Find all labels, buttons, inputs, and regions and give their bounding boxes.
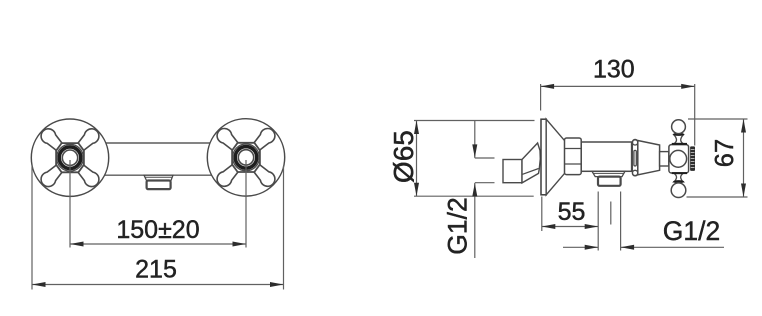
dimension 150±20 <box>70 242 246 247</box>
right escutcheon <box>207 119 284 196</box>
wall nipple <box>503 160 522 183</box>
dimension 55 <box>542 192 611 251</box>
right handle lobe SW <box>214 161 242 189</box>
flange cone <box>546 119 567 195</box>
extension line 215 right <box>283 166 285 290</box>
dimension 215 <box>32 282 284 287</box>
right handle lobe NW <box>214 125 242 153</box>
outlet collar side <box>592 171 625 176</box>
handle hub side <box>669 145 689 173</box>
top collar ring <box>673 133 684 136</box>
svg-text:150±20: 150±20 <box>116 216 199 244</box>
right handle assembly <box>207 119 284 196</box>
extension line 215 left <box>31 166 33 290</box>
outlet collar front <box>144 175 173 180</box>
eccentric union inner edge <box>523 169 539 175</box>
left hub outer circle <box>57 144 84 171</box>
top neck <box>674 135 683 144</box>
right hub outer circle <box>233 144 260 171</box>
handle neck side <box>660 152 669 166</box>
top ball <box>672 120 686 134</box>
valve body side <box>581 142 631 171</box>
left hub dark ring <box>59 147 81 169</box>
svg-text:215: 215 <box>135 256 177 284</box>
hub bottom edge <box>672 172 687 174</box>
dimension G1/2 right <box>563 192 724 251</box>
svg-text:Ø65: Ø65 <box>388 130 419 183</box>
left handle lobe NW <box>38 126 66 154</box>
knurled medallion <box>690 146 695 171</box>
left handle lobe SW <box>38 161 66 189</box>
dimension 130 <box>541 84 695 146</box>
dimension 67 <box>687 119 748 197</box>
left hub bore <box>62 150 77 165</box>
svg-text:G1/2: G1/2 <box>443 197 473 254</box>
left handle lobe NE <box>74 126 102 154</box>
right hub dark ring <box>235 147 257 169</box>
left handle hub octagon <box>56 143 84 172</box>
bottom neck <box>674 174 683 182</box>
extension line left handle center <box>69 160 71 248</box>
left escutcheon <box>31 119 108 196</box>
eccentric union cone <box>522 143 540 183</box>
right hub bore <box>238 150 253 165</box>
flange rim <box>541 119 546 195</box>
svg-text:67: 67 <box>711 139 739 167</box>
bonnet ring <box>632 139 637 176</box>
hex nut side <box>565 138 582 175</box>
svg-text:55: 55 <box>558 198 586 226</box>
outlet spout front <box>147 181 171 190</box>
bottom collar ring <box>673 180 684 183</box>
right handle hub octagon <box>232 143 260 172</box>
mixer body bar <box>88 143 229 175</box>
outlet spout side <box>598 177 621 186</box>
dimension G1/2 left <box>472 121 494 259</box>
extension line right handle center <box>245 160 247 248</box>
right handle lobe NE <box>250 125 278 153</box>
hub top edge <box>672 143 687 145</box>
bonnet cone <box>638 141 660 175</box>
left handle lobe SE <box>74 161 102 189</box>
bottom ball <box>671 183 686 198</box>
dimension Ø65 <box>414 121 535 197</box>
svg-text:130: 130 <box>593 56 635 84</box>
left handle assembly <box>31 119 108 196</box>
svg-text:G1/2: G1/2 <box>663 216 720 246</box>
right handle lobe SE <box>250 161 278 189</box>
